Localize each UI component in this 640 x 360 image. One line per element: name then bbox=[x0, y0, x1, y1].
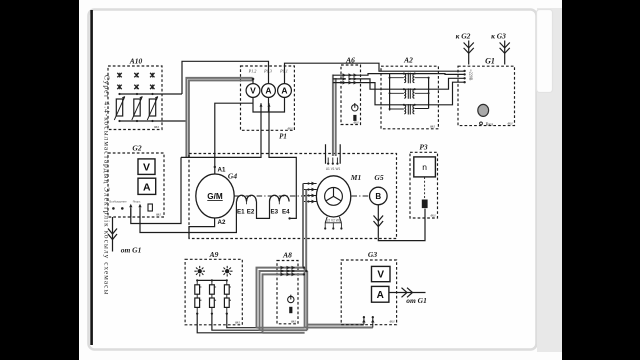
node A1 terminal bbox=[214, 166, 216, 168]
G2 terminal dots bbox=[112, 207, 124, 210]
A6 contact chevrons bbox=[343, 73, 358, 84]
block P1 box bbox=[241, 66, 295, 130]
A8 fuse mark bbox=[289, 307, 292, 313]
svg-text:вкл: вкл bbox=[288, 127, 293, 131]
arrow к G3 bbox=[504, 41, 506, 65]
svg-text:A1: A1 bbox=[218, 167, 226, 174]
svg-text:Якорь: Якорь bbox=[133, 199, 141, 203]
svg-text:A10: A10 bbox=[129, 57, 143, 66]
G1 pilot lamp bbox=[480, 122, 483, 125]
lamp L1 sun symbol bbox=[198, 269, 202, 273]
G1 terminal dots bbox=[463, 70, 465, 84]
rheostats R1 R2 R3 in A10 bbox=[114, 96, 158, 120]
svg-text:G1: G1 bbox=[485, 57, 495, 66]
wire P1 bottom loop V-A bbox=[253, 97, 285, 112]
ammeter square G3-A bbox=[372, 286, 389, 302]
arrow chevrons down (ot G1) bbox=[108, 229, 117, 240]
svg-text:U1 V1 W1: U1 V1 W1 bbox=[326, 167, 341, 171]
svg-text:вкл: вкл bbox=[390, 320, 395, 324]
white video frame panel bbox=[79, 0, 562, 360]
svg-text:≈220В: ≈220В bbox=[469, 70, 474, 81]
svg-text:M1: M1 bbox=[350, 173, 361, 182]
arrow к G2 bbox=[468, 41, 470, 65]
M1 rotor circle with star bbox=[325, 188, 343, 206]
svg-text:A2: A2 bbox=[403, 56, 413, 65]
svg-text:n: n bbox=[422, 162, 427, 172]
transformer T2 bbox=[404, 88, 414, 98]
field winding E3 E4 bbox=[270, 195, 290, 201]
svg-text:V: V bbox=[377, 270, 384, 281]
wire P1 drop left (to G2 loop) bbox=[181, 103, 261, 157]
bus junction verticals bbox=[304, 268, 306, 328]
svg-text:E1: E1 bbox=[237, 209, 245, 216]
svg-text:A: A bbox=[377, 290, 384, 301]
svg-text:A: A bbox=[143, 182, 151, 194]
svg-text:Вкл.: Вкл. bbox=[486, 122, 495, 127]
bus thick gray pair to V meter bbox=[186, 78, 252, 157]
lamp symbols A10 (X marks), 2 rows x 3 cols bbox=[117, 73, 154, 90]
A2 junction dots bbox=[389, 73, 430, 111]
tiny corner marks vkl in each box bbox=[154, 121, 513, 325]
block A9 box bbox=[185, 259, 242, 325]
right page edge gray strip bbox=[537, 8, 562, 352]
svg-text:от G1: от G1 bbox=[121, 246, 142, 255]
svg-text:вкл: вкл bbox=[430, 125, 435, 129]
block G2 box bbox=[108, 153, 164, 217]
A6 phase rows bbox=[333, 75, 361, 82]
svg-text:вкл: вкл bbox=[508, 122, 513, 126]
svg-text:E3: E3 bbox=[271, 209, 279, 216]
wire A10 bottom rail bbox=[120, 120, 188, 122]
A8 contact chevrons bbox=[281, 266, 296, 277]
svg-text:вкл: вкл bbox=[154, 125, 159, 129]
M1 stator circle bbox=[316, 176, 350, 217]
A8 drive symbol bbox=[288, 296, 294, 302]
resistor columns A9 bbox=[195, 280, 231, 313]
wire B down with arrows, to P3 connector bbox=[378, 205, 425, 241]
wire A10 riser to P1.3 bbox=[182, 61, 269, 94]
svg-text:Возбуждение: Возбуждение bbox=[109, 199, 127, 203]
G3 feed terminals with up arrows bbox=[364, 318, 373, 328]
dashed probe lead bbox=[424, 177, 426, 200]
wire P1.1 top feed to G1 bbox=[285, 63, 465, 83]
wire A1 feed from V bottom bbox=[215, 103, 253, 174]
svg-text:вкл: вкл bbox=[291, 320, 296, 324]
wire G3 output to G1 bbox=[389, 292, 426, 294]
bus right to G3 bbox=[307, 324, 364, 326]
shaft coupling dash-dot G4 to M1 bbox=[234, 195, 369, 197]
block G3 box bbox=[341, 260, 396, 325]
svg-text:A8: A8 bbox=[282, 251, 292, 260]
svg-text:к G3: к G3 bbox=[491, 32, 506, 41]
svg-text:вкл: вкл bbox=[354, 121, 359, 125]
svg-text:P3: P3 bbox=[419, 143, 428, 152]
bus from M1 down bbox=[302, 184, 304, 269]
svg-text:E4: E4 bbox=[282, 209, 290, 216]
svg-text:G4: G4 bbox=[228, 172, 237, 181]
junction dots A10 bbox=[118, 93, 153, 122]
svg-text:A6: A6 bbox=[345, 56, 355, 65]
wire G2 to loop riser bbox=[131, 157, 181, 223]
wires A2 to G1 staircase bbox=[437, 74, 464, 105]
svg-text:вкл: вкл bbox=[156, 213, 161, 217]
svg-text:P1: P1 bbox=[279, 133, 287, 141]
svg-text:P1.2: P1.2 bbox=[248, 69, 257, 74]
M1 left terminals bbox=[303, 184, 317, 202]
svg-text:G/M: G/M bbox=[207, 192, 223, 201]
svg-text:A2: A2 bbox=[218, 219, 226, 226]
M1 bottom terminals U2V2W2 bbox=[325, 217, 341, 223]
wire P1.3 bottom stub bbox=[268, 97, 270, 112]
winding mid ticks bbox=[247, 202, 280, 205]
svg-text:A9: A9 bbox=[209, 250, 219, 259]
svg-text:E2: E2 bbox=[247, 209, 255, 216]
wire arrow to G1 (from G2) bbox=[112, 217, 114, 252]
generator G4 circle bbox=[196, 174, 234, 218]
n indicator square bbox=[414, 157, 436, 177]
meter P1 sublabels bbox=[248, 69, 288, 74]
svg-text:вкл: вкл bbox=[431, 214, 436, 218]
wire E2-E3 link bbox=[257, 202, 270, 219]
voltmeter square G2-V bbox=[138, 159, 155, 175]
svg-text:B: B bbox=[375, 192, 381, 201]
block A2 box bbox=[381, 66, 438, 129]
wire P1 drop right (to E4) bbox=[269, 103, 296, 218]
block P3 box bbox=[410, 152, 438, 218]
book spine line bbox=[90, 10, 93, 345]
connector plug P3 bbox=[422, 200, 428, 209]
field winding E1 E2 bbox=[237, 195, 257, 201]
voltmeter square G3-V bbox=[372, 266, 391, 281]
transformer T3 bbox=[404, 104, 414, 114]
A6 drive symbol (circle with lever) bbox=[352, 105, 358, 111]
transformer T1 bbox=[404, 73, 414, 83]
svg-text:G3: G3 bbox=[368, 250, 377, 259]
bus gray pair from A6 down into M1 top bbox=[333, 75, 336, 157]
right white page tab bbox=[537, 10, 553, 93]
svg-text:P1.3: P1.3 bbox=[263, 69, 272, 74]
wire G2 to E1 bbox=[140, 202, 236, 233]
svg-text:P1.1: P1.1 bbox=[279, 69, 288, 74]
svg-text:G2: G2 bbox=[132, 144, 141, 153]
svg-text:A: A bbox=[281, 86, 287, 96]
G2 terminal leads with up arrows bbox=[131, 206, 140, 217]
arrow chevrons right (ot G1) bbox=[402, 288, 413, 298]
M1 top terminal funnel bbox=[326, 144, 341, 164]
svg-text:к G2: к G2 bbox=[456, 32, 471, 41]
meter A P1.1 bbox=[278, 84, 292, 98]
page frame border bbox=[89, 10, 537, 350]
lamp L2 sun symbol bbox=[225, 269, 229, 273]
wires A9 columns to bottom bus bbox=[197, 314, 262, 333]
ammeter square G2-A bbox=[138, 178, 156, 194]
wire A9 top rail bbox=[197, 279, 227, 281]
meter A P1.3 bbox=[262, 84, 276, 98]
svg-text:Сурет 4.4-косылмастардың Элект: Сурет 4.4-косылмастардың Электрлік косыл… bbox=[103, 75, 111, 295]
wires A6 to A2 staircase bbox=[361, 74, 382, 105]
block G1 box bbox=[458, 66, 515, 125]
block A10 box bbox=[108, 66, 162, 130]
svg-text:V: V bbox=[250, 86, 256, 96]
G1 power button bbox=[478, 104, 489, 116]
meter B circle bbox=[370, 187, 388, 205]
bus junction dots bbox=[303, 266, 308, 275]
svg-text:A: A bbox=[265, 86, 271, 96]
svg-text:U2 V2 W2: U2 V2 W2 bbox=[326, 219, 341, 223]
G2 connector symbol bbox=[148, 204, 152, 211]
svg-text:вкл: вкл bbox=[235, 321, 240, 325]
wire V top stub bbox=[252, 79, 254, 84]
svg-text:G5: G5 bbox=[374, 173, 383, 182]
bus bottom runs to junction bbox=[257, 327, 305, 329]
A6 fuse mark bbox=[353, 115, 356, 121]
wire A10 top rail bbox=[120, 93, 183, 95]
node V top bbox=[252, 78, 255, 81]
A2 through wires bbox=[381, 74, 437, 105]
component letters (sans) bbox=[109, 70, 494, 301]
wire A2 of G4 bbox=[189, 218, 215, 238]
svg-text:V: V bbox=[143, 162, 150, 174]
block A6 box bbox=[341, 65, 361, 125]
node E4 link bbox=[288, 217, 290, 219]
block A8 box bbox=[277, 261, 298, 324]
A2 side brackets bbox=[390, 74, 429, 111]
bus row to A8 and down-left bbox=[257, 268, 304, 328]
svg-text:от G1: от G1 bbox=[406, 296, 427, 305]
arrowheads on P1 drops bbox=[260, 103, 271, 106]
meter V P1.2 bbox=[246, 84, 260, 98]
